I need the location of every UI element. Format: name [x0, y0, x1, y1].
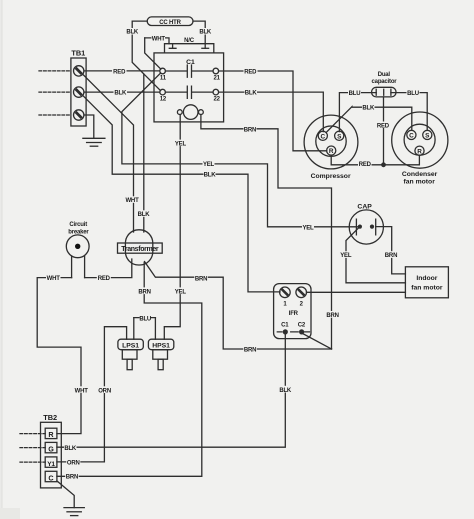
- label BLK at G: [64, 444, 77, 452]
- svg-text:BLK: BLK: [362, 105, 375, 111]
- junction dot: [381, 162, 386, 167]
- wire T2 diagonal down then to IFR terminal 1: [83, 96, 280, 292]
- wire BLK IFR C1 down to TB2-G: [57, 334, 285, 447]
- IFR contact dots: [283, 329, 288, 334]
- svg-text:breaker: breaker: [68, 230, 89, 236]
- svg-text:N/C: N/C: [184, 38, 195, 44]
- IFR screw 2: [296, 287, 307, 298]
- transformer: [118, 230, 163, 265]
- N/C bracket: [165, 44, 214, 53]
- page edge artifacts: [0, 0, 3, 519]
- crankcase heater CC HTR: [147, 17, 193, 26]
- svg-text:TB1: TB1: [71, 49, 85, 58]
- svg-text:BRN: BRN: [195, 276, 207, 282]
- pressure switch LPS1: [118, 339, 143, 370]
- svg-text:BLU: BLU: [349, 91, 361, 97]
- svg-text:WHT: WHT: [125, 198, 139, 204]
- wire BLK C1-22 to compressor C: [219, 92, 324, 132]
- contactor coil: [177, 105, 203, 120]
- wire BLU dual cap to condenser S: [396, 93, 427, 131]
- svg-text:BLK: BLK: [126, 30, 139, 36]
- svg-text:BLK: BLK: [279, 388, 292, 394]
- svg-text:HPS1: HPS1: [152, 343, 170, 350]
- svg-text:ORN: ORN: [67, 460, 80, 466]
- svg-text:BRN: BRN: [66, 475, 78, 481]
- svg-text:22: 22: [213, 97, 220, 103]
- breaker leads: [72, 256, 85, 278]
- svg-text:RED: RED: [359, 162, 372, 168]
- svg-text:YEL: YEL: [340, 253, 352, 259]
- svg-text:RED: RED: [113, 69, 126, 75]
- svg-text:BRN: BRN: [244, 128, 256, 134]
- wire T1 diagonal down to transformer WHT lead: [83, 75, 133, 232]
- svg-text:BLU: BLU: [407, 91, 419, 97]
- svg-text:BLK: BLK: [204, 173, 217, 179]
- label BLK on horizontal run: [204, 171, 217, 179]
- svg-text:R: R: [417, 148, 422, 155]
- svg-text:BRN: BRN: [326, 313, 338, 319]
- svg-text:R: R: [329, 148, 334, 155]
- N/C contact right: [202, 47, 209, 49]
- svg-text:BLK: BLK: [199, 30, 212, 36]
- wire RED dual cap down to junction: [383, 97, 385, 165]
- condenser fan motor: [392, 112, 448, 168]
- wire TB2-C to earth: [57, 481, 74, 508]
- compressor terminal R: [327, 146, 336, 155]
- svg-text:BLU: BLU: [139, 317, 151, 323]
- N/C contact left: [169, 44, 176, 49]
- svg-text:Y1: Y1: [47, 461, 55, 468]
- svg-text:WHT: WHT: [75, 388, 89, 394]
- TB1 screw terminal 1: [74, 66, 84, 76]
- svg-text:BRN: BRN: [385, 253, 397, 259]
- label WHT: [152, 35, 166, 43]
- svg-text:BLK: BLK: [64, 446, 77, 452]
- svg-text:CAP: CAP: [357, 203, 372, 210]
- wire YEL coil to HPS1: [164, 115, 180, 340]
- wire RED breaker to transformer: [85, 259, 132, 278]
- svg-text:TB2: TB2: [43, 413, 57, 422]
- wire BLK TB1-2 to C1-12: [84, 91, 160, 93]
- svg-text:YEL: YEL: [302, 225, 314, 231]
- svg-text:IFR: IFR: [289, 311, 299, 317]
- run capacitor CAP: [349, 210, 383, 244]
- wire IFR-2 to indoor fan motor: [307, 291, 406, 293]
- compressor terminal C: [318, 131, 327, 140]
- svg-text:WHT: WHT: [152, 36, 166, 42]
- dashed field leads into TB1: [39, 70, 71, 72]
- wire CC HTR blk diagonal to contactor terminal 12: [144, 74, 161, 91]
- label YEL on long vertical: [174, 287, 186, 295]
- svg-text:BLK: BLK: [245, 91, 258, 97]
- svg-text:Circuit: Circuit: [69, 222, 87, 228]
- svg-text:11: 11: [160, 76, 167, 82]
- dual capacitor: [372, 87, 396, 97]
- svg-text:YEL: YEL: [175, 142, 187, 148]
- svg-text:fan motor: fan motor: [404, 178, 436, 185]
- wire ORN TB2-Y1 up to LPS1: [57, 327, 127, 462]
- pressure switch HPS1: [148, 339, 173, 370]
- svg-text:RED: RED: [98, 276, 111, 282]
- wire BRN transformer center lead to TB2-C: [57, 263, 202, 477]
- svg-text:Indoor: Indoor: [416, 275, 437, 282]
- svg-text:S: S: [337, 133, 342, 140]
- TB1 screw terminal 3: [74, 110, 84, 120]
- wire BLK compressor C to condenser C: [326, 107, 412, 133]
- wire BRN CAP to indoor fan motor: [376, 227, 406, 274]
- wire R lead down to RED run: [331, 155, 419, 165]
- svg-text:C2: C2: [298, 322, 306, 328]
- wire IFR C2 diagonal to BRN junction: [302, 333, 332, 349]
- svg-text:YEL: YEL: [203, 162, 215, 168]
- label BRN at C: [65, 473, 79, 481]
- svg-text:CC HTR: CC HTR: [159, 20, 181, 26]
- wire BRN transformer diagonal lead to relay junction: [145, 262, 332, 350]
- svg-text:12: 12: [160, 97, 167, 103]
- label BLK transformer primary: [137, 210, 150, 218]
- wire YEL CAP to indoor fan motor: [346, 227, 405, 283]
- relay IFR: [274, 284, 311, 339]
- svg-text:ORN: ORN: [98, 388, 111, 394]
- svg-text:BLK: BLK: [114, 91, 127, 97]
- svg-text:C: C: [48, 473, 53, 482]
- svg-text:Compressor: Compressor: [311, 173, 351, 180]
- TB2 terminal C: [45, 471, 57, 482]
- wire WHT from N/C aux contact: [145, 38, 169, 44]
- svg-text:YEL: YEL: [175, 289, 187, 295]
- svg-text:fan motor: fan motor: [411, 284, 443, 291]
- label ORN at Y1: [66, 458, 80, 466]
- condenser terminal C: [407, 130, 416, 139]
- svg-text:S: S: [425, 133, 430, 140]
- wire C1-11 diagonal down to YEL run to CAP: [122, 73, 358, 227]
- svg-text:C: C: [320, 133, 325, 140]
- svg-text:RED: RED: [244, 70, 257, 76]
- compressor motor: [304, 115, 358, 169]
- label BLK (cc htr right): [199, 28, 212, 36]
- wire CC HTR left lead: [132, 21, 147, 232]
- wire WHT breaker to TB2-R: [37, 278, 81, 434]
- wire RED TB1-1 to C1-11: [84, 70, 160, 72]
- svg-text:21: 21: [213, 76, 220, 82]
- svg-text:BRN: BRN: [244, 348, 256, 354]
- svg-text:C: C: [409, 133, 414, 140]
- svg-text:LPS1: LPS1: [122, 343, 139, 350]
- TB1 screw terminal 2: [74, 87, 84, 97]
- label WHT transformer primary: [125, 196, 140, 204]
- TB2 terminal R: [45, 428, 57, 439]
- wire RED C1-21 to compressor R: [219, 71, 327, 151]
- compressor terminal S: [335, 131, 344, 140]
- terminal 12: [160, 89, 166, 95]
- label BRN on coil-net vertical: [326, 311, 340, 319]
- label YEL on horizontal run: [203, 160, 215, 168]
- condenser terminal R: [415, 146, 424, 155]
- terminal block TB1: [71, 49, 86, 126]
- svg-text:Condenser: Condenser: [402, 171, 438, 178]
- svg-text:BLK: BLK: [138, 212, 151, 218]
- ground below TB2: [64, 508, 84, 516]
- wire BRN coil to relay net: [201, 115, 332, 350]
- svg-text:capacitor: capacitor: [372, 79, 398, 85]
- dashed thermostat leads: [20, 433, 45, 435]
- label YEL near CAP: [302, 224, 314, 232]
- wire TB1-3 to earth: [84, 115, 94, 138]
- IFR screw 1: [280, 287, 291, 298]
- contactor C1 box: [154, 53, 224, 122]
- svg-text:RED: RED: [377, 123, 390, 129]
- condenser terminal S: [423, 130, 432, 139]
- circuit breaker: [66, 235, 89, 258]
- contact 11-21: [165, 65, 213, 77]
- label BLK (cc htr left): [126, 28, 139, 36]
- svg-text:WHT: WHT: [47, 276, 61, 282]
- TB2 terminal Y1: [45, 457, 57, 468]
- contact 12-22: [165, 86, 213, 98]
- BLU jumper bracket between LPS1 and HPS1: [134, 317, 156, 319]
- terminal block TB2: [41, 413, 62, 488]
- wire CC HTR right lead: [193, 21, 205, 48]
- svg-text:Transformer: Transformer: [121, 246, 159, 253]
- terminal 22: [213, 89, 219, 95]
- svg-text:BRN: BRN: [138, 289, 150, 295]
- indoor fan motor: [405, 267, 448, 298]
- svg-text:Dual: Dual: [378, 72, 391, 78]
- ground below TB1: [83, 138, 105, 146]
- terminal 21: [213, 68, 219, 74]
- wire BLU dual cap to compressor S: [339, 93, 371, 132]
- svg-text:G: G: [48, 444, 54, 453]
- TB2 terminal G: [45, 442, 57, 453]
- svg-text:C1: C1: [281, 322, 289, 328]
- svg-text:R: R: [48, 430, 54, 439]
- terminal 11: [160, 68, 166, 74]
